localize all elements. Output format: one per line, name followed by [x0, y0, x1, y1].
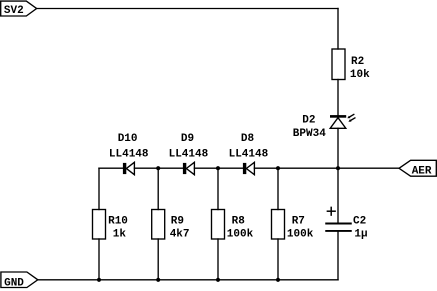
wire D8 to AER flag — [254, 167, 399, 169]
resistor R8 — [212, 210, 225, 240]
svg-text:R10: R10 — [108, 215, 128, 227]
wire D9 to D8 — [194, 167, 243, 169]
svg-text:D2: D2 — [302, 114, 315, 126]
junction node GND/R10 — [97, 278, 101, 282]
svg-text:R9: R9 — [171, 215, 184, 227]
svg-text:D8: D8 — [241, 133, 255, 145]
svg-text:D10: D10 — [118, 133, 138, 145]
resistor R10 — [93, 210, 106, 240]
wire GND horizontal — [38, 279, 338, 281]
svg-text:4k7: 4k7 — [170, 228, 190, 240]
svg-text:BPW34: BPW34 — [293, 128, 326, 140]
wire R7 branch — [277, 168, 279, 209]
wire R2 to D2 — [337, 80, 339, 116]
net flag SV2 — [1, 1, 37, 16]
svg-text:100k: 100k — [227, 228, 254, 240]
diode D8 — [243, 162, 255, 174]
photodiode D2 — [330, 114, 355, 128]
net flag AER — [399, 160, 436, 176]
junction node GND/R7 — [276, 278, 280, 282]
wire R8 to GND — [217, 239, 219, 280]
junction node GND/R8 — [216, 278, 220, 282]
wire R9 to GND — [157, 239, 159, 280]
svg-text:R8: R8 — [232, 215, 246, 227]
wire C2 branch — [337, 168, 339, 223]
wire D10 to D9 — [134, 167, 183, 169]
resistor R2 — [332, 49, 345, 80]
svg-text:LL4148: LL4148 — [109, 148, 149, 160]
wire D2 to AER line — [337, 128, 339, 168]
capacitor C2 — [326, 207, 351, 231]
svg-text:D9: D9 — [181, 133, 194, 145]
wire C2 to GND line — [337, 231, 339, 280]
net flag GND — [1, 272, 38, 288]
wire R9 branch — [157, 168, 159, 209]
junction node AER/R9 — [156, 166, 160, 170]
svg-text:AER: AER — [412, 166, 432, 178]
wire AER horizontal left segment — [99, 167, 123, 169]
wire R7 to GND — [277, 239, 279, 280]
junction node AER/R8 — [216, 166, 220, 170]
svg-text:GND: GND — [4, 277, 24, 289]
svg-text:LL4148: LL4148 — [229, 148, 269, 160]
svg-text:1µ: 1µ — [354, 228, 367, 240]
wire R10 branch — [98, 168, 100, 209]
svg-text:10k: 10k — [350, 69, 370, 81]
diode D9 — [183, 162, 195, 174]
diode D10 — [123, 162, 134, 174]
resistor R7 — [272, 210, 285, 240]
junction node GND/R9 — [156, 278, 160, 282]
junction node AER/D2/C2 — [336, 166, 340, 170]
wire R10 to GND — [98, 239, 100, 280]
svg-text:LL4148: LL4148 — [169, 148, 209, 160]
svg-text:R2: R2 — [351, 56, 364, 68]
svg-text:100k: 100k — [287, 228, 314, 240]
junction node AER/R7 — [276, 166, 280, 170]
svg-text:R7: R7 — [292, 215, 305, 227]
svg-text:SV2: SV2 — [4, 5, 24, 17]
resistor R9 — [152, 210, 165, 240]
wire R8 branch — [217, 168, 219, 209]
wire right vertical to R2 — [337, 9, 339, 50]
wire SV2 top horizontal — [37, 8, 338, 10]
svg-text:C2: C2 — [353, 215, 366, 227]
svg-text:1k: 1k — [113, 228, 127, 240]
